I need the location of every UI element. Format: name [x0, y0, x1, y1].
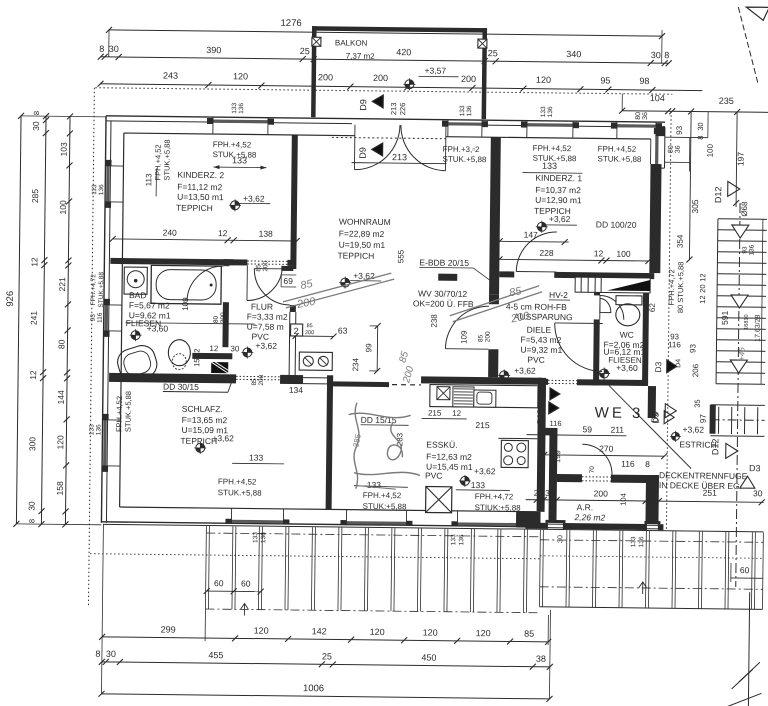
- svg-text:116: 116: [668, 340, 681, 349]
- svg-text:30: 30: [753, 488, 763, 498]
- svg-text:240: 240: [163, 227, 178, 237]
- svg-text:+3,60: +3,60: [147, 323, 169, 333]
- svg-text:PVC: PVC: [425, 470, 443, 480]
- outer wall top: inner face: [124, 133, 355, 136]
- svg-text:36: 36: [642, 112, 649, 120]
- svg-text:+3,62: +3,62: [353, 271, 375, 281]
- door ar corridor: [582, 444, 612, 474]
- svg-text:38: 38: [536, 654, 546, 664]
- svg-text:WC: WC: [620, 330, 634, 340]
- dim 99: [376, 326, 379, 371]
- svg-text:158: 158: [55, 481, 65, 496]
- balcony window-box symbol left: [312, 37, 321, 46]
- svg-text:DD 30/15: DD 30/15: [163, 382, 199, 392]
- svg-text:STUK:+5,88: STUK:+5,88: [363, 502, 407, 512]
- wall flur / wohnraum: [290, 266, 296, 269]
- outer wall left: faces: [101, 116, 106, 523]
- svg-text:234: 234: [351, 357, 360, 371]
- svg-text:199: 199: [553, 450, 562, 463]
- wall kinderz2 / wohnraum: [290, 135, 297, 260]
- svg-text:30: 30: [651, 50, 661, 60]
- svg-text:95: 95: [600, 75, 610, 85]
- svg-text:70: 70: [589, 466, 596, 474]
- svg-text:F=10,37 m2: F=10,37 m2: [535, 185, 581, 196]
- svg-text:241: 241: [29, 311, 39, 326]
- svg-text:200: 200: [485, 331, 492, 342]
- svg-text:STUK.+5,88: STUK.+5,88: [443, 155, 487, 165]
- svg-text:30: 30: [31, 121, 41, 131]
- chain left segments: [41, 116, 46, 524]
- wall kinderz1 bottom: [499, 271, 514, 277]
- pencil squiggle schlafz: [348, 403, 421, 490]
- bottom right border: [748, 592, 749, 706]
- svg-text:69: 69: [283, 276, 293, 286]
- svg-text:12: 12: [209, 344, 219, 353]
- dim ar bottom: [526, 500, 764, 503]
- svg-text:STUK.+5,88: STUK.+5,88: [218, 488, 262, 498]
- pencil strike flur: [283, 272, 391, 303]
- svg-text:D3: D3: [650, 411, 660, 423]
- benchmark +3,57: [405, 80, 414, 89]
- svg-text:136: 136: [260, 532, 267, 543]
- svg-text:D3: D3: [653, 361, 663, 372]
- svg-text:30: 30: [557, 535, 564, 543]
- svg-text:120: 120: [536, 75, 551, 85]
- svg-text:120: 120: [370, 627, 385, 637]
- svg-text:2: 2: [294, 326, 299, 336]
- svg-text:300: 300: [27, 437, 37, 452]
- svg-text:120: 120: [55, 435, 65, 450]
- svg-text:80: 80: [668, 145, 675, 153]
- svg-text:270: 270: [599, 443, 614, 453]
- svg-text:97: 97: [699, 414, 708, 424]
- svg-text:104: 104: [650, 93, 665, 103]
- dimension total 1276: [109, 30, 662, 36]
- staircase lower flight: [717, 407, 719, 434]
- svg-text:30: 30: [27, 501, 37, 511]
- svg-text:93: 93: [688, 343, 697, 353]
- nook sink unit: [299, 352, 332, 370]
- svg-text:85: 85: [478, 334, 485, 342]
- svg-text:60: 60: [214, 578, 224, 588]
- wall schlafz / esskue: [326, 375, 334, 509]
- wall esskue right: [537, 378, 547, 512]
- wall bad bottom niche: [192, 353, 232, 359]
- svg-text:30: 30: [545, 488, 555, 498]
- svg-text:30: 30: [696, 122, 705, 130]
- chain 1006: [101, 694, 549, 699]
- dim kinderz1 228/12/100: [499, 259, 648, 261]
- svg-text:17.63/28: 17.63/28: [755, 314, 762, 341]
- svg-text:TEPPICH: TEPPICH: [337, 250, 374, 260]
- svg-text:133: 133: [367, 480, 382, 490]
- svg-text:206: 206: [691, 363, 700, 377]
- dim 63: [296, 335, 334, 337]
- svg-text:109: 109: [181, 297, 190, 311]
- svg-text:STUK.+5,88: STUK.+5,88: [598, 154, 642, 164]
- svg-text:136: 136: [749, 244, 756, 255]
- bad washbasin counter: [124, 267, 147, 294]
- svg-text:KINDERZ. 2: KINDERZ. 2: [177, 170, 224, 181]
- svg-text:F=5,67 m2: F=5,67 m2: [129, 300, 170, 310]
- svg-text:200: 200: [262, 260, 269, 271]
- svg-text:12: 12: [594, 248, 604, 258]
- svg-text:104: 104: [619, 493, 628, 506]
- svg-text:228: 228: [539, 248, 554, 258]
- extension lines bottom: [101, 524, 103, 694]
- svg-text:12: 12: [698, 273, 707, 281]
- svg-text:E-BDB 20/15: E-BDB 20/15: [419, 257, 469, 268]
- svg-text:80: 80: [213, 315, 220, 323]
- svg-text:12: 12: [452, 409, 462, 418]
- svg-text:100: 100: [616, 249, 631, 259]
- svg-text:Ø68: Ø68: [740, 201, 749, 217]
- kitchen counter: [430, 385, 538, 408]
- svg-text:D4: D4: [675, 359, 682, 368]
- duct DD 30/15: [211, 362, 228, 373]
- svg-text:U=9,32 m1: U=9,32 m1: [520, 345, 562, 355]
- svg-text:136: 136: [98, 184, 105, 195]
- chain 299/120/142/120/120/120/85: [102, 637, 548, 642]
- stairs side rail: [761, 219, 763, 384]
- door wc: [600, 295, 624, 319]
- svg-text:63: 63: [338, 325, 348, 335]
- kitchen box symbol: [437, 387, 450, 400]
- svg-text:226: 226: [398, 103, 407, 116]
- wall stair hall: [648, 386, 656, 418]
- svg-text:98: 98: [639, 76, 649, 86]
- landing walls: [709, 405, 715, 434]
- svg-text:103: 103: [59, 142, 69, 157]
- dim kinderz2 bottom 240/12/138: [113, 239, 297, 241]
- svg-text:136: 136: [458, 534, 465, 545]
- balcony window-box symbol right: [478, 39, 487, 48]
- svg-text:85: 85: [255, 264, 262, 272]
- svg-text:4-5 cm ROH-FB: 4-5 cm ROH-FB: [506, 301, 567, 312]
- wall kinderz2 bottom: [110, 258, 247, 266]
- svg-text:F=3,33 m2: F=3,33 m2: [247, 311, 288, 321]
- svg-text:197: 197: [736, 152, 746, 167]
- svg-text:DIELE: DIELE: [527, 325, 552, 335]
- svg-text:+3,62: +3,62: [549, 214, 571, 224]
- dotted site line vertical left: [88, 88, 94, 607]
- svg-text:100: 100: [58, 200, 68, 215]
- kitchen drainer: [453, 387, 474, 407]
- svg-text:299: 299: [161, 624, 176, 634]
- outer wall top: outer face: [106, 116, 665, 122]
- door marker D12 entry: [550, 388, 560, 400]
- dimension row 243/120/200/200/200/120/95/98: [100, 84, 702, 91]
- wall schlafz top: [109, 373, 236, 383]
- corridor wall: [548, 435, 557, 522]
- svg-text:200: 200: [461, 74, 476, 84]
- svg-text:+3,62: +3,62: [255, 341, 277, 351]
- svg-text:12: 12: [698, 295, 707, 303]
- dim kinderz1 147: [500, 240, 569, 243]
- svg-text:147: 147: [524, 230, 539, 240]
- door D9 balcony double: [354, 125, 400, 171]
- svg-text:116: 116: [621, 459, 635, 469]
- svg-text:TEPPICH: TEPPICH: [176, 203, 213, 213]
- svg-text:FPH.+4,52: FPH.+4,52: [598, 144, 637, 153]
- svg-text:200: 200: [318, 72, 333, 82]
- svg-text:U=12,90 m1: U=12,90 m1: [535, 195, 582, 206]
- sheet corner mark top-right: [746, 7, 768, 20]
- svg-text:+45: +45: [737, 347, 746, 361]
- chain 197: [736, 112, 737, 207]
- svg-text:116: 116: [97, 312, 104, 323]
- svg-text:305: 305: [690, 199, 700, 214]
- wall wc bottom: [593, 379, 648, 386]
- wall wc left: [594, 292, 600, 295]
- svg-text:WV 30/70/12: WV 30/70/12: [418, 288, 468, 299]
- svg-text:25: 25: [322, 651, 332, 661]
- svg-text:FPH.+4,52: FPH.+4,52: [363, 491, 402, 500]
- svg-text:F=22,89 m2: F=22,89 m2: [339, 228, 385, 239]
- shaft wedge: [607, 280, 650, 291]
- svg-text:F=11,12 m2: F=11,12 m2: [177, 182, 222, 193]
- svg-text:STUK.+5,88: STUK.+5,88: [213, 150, 257, 160]
- svg-text:238: 238: [430, 314, 439, 328]
- svg-text:12: 12: [192, 348, 201, 356]
- svg-text:420: 420: [396, 47, 411, 57]
- svg-text:+3,62: +3,62: [212, 433, 234, 443]
- svg-text:+3,62: +3,62: [243, 193, 265, 203]
- svg-text:85: 85: [251, 378, 258, 386]
- svg-text:60: 60: [241, 578, 251, 588]
- shaft x-box bottom: [426, 486, 452, 512]
- svg-text:KINDERZ. 1: KINDERZ. 1: [535, 173, 582, 184]
- svg-text:93: 93: [675, 125, 684, 135]
- svg-text:200: 200: [258, 374, 265, 385]
- corner pier top right: [656, 126, 665, 136]
- svg-text:243: 243: [163, 70, 178, 80]
- svg-text:25: 25: [488, 48, 498, 58]
- svg-text:D9: D9: [358, 147, 368, 159]
- svg-text:354: 354: [676, 234, 685, 248]
- svg-text:SCHLAFZ.: SCHLAFZ.: [182, 404, 223, 414]
- terrace rows left: [206, 533, 540, 537]
- svg-text:2: 2: [534, 488, 539, 498]
- svg-text:62: 62: [648, 303, 657, 313]
- svg-text:390: 390: [206, 45, 221, 55]
- svg-text:8: 8: [645, 459, 650, 469]
- svg-text:2,26 m2: 2,26 m2: [573, 512, 605, 522]
- door kinderz1: [516, 232, 556, 272]
- svg-text:IN DECKE ÜBER EG.: IN DECKE ÜBER EG.: [659, 480, 742, 491]
- terrace right strip: [539, 530, 542, 607]
- svg-text:15: 15: [192, 358, 201, 366]
- staircase center dashdot: [736, 203, 740, 587]
- svg-text:30: 30: [109, 44, 119, 54]
- bad wc bowl: [168, 340, 190, 366]
- wall wohnraum / diele: [489, 137, 501, 294]
- svg-text:200: 200: [220, 312, 227, 323]
- svg-text:+3,60: +3,60: [616, 363, 638, 373]
- svg-text:STUK.+5,88: STUK.+5,88: [533, 154, 577, 164]
- svg-text:7,37 m2: 7,37 m2: [346, 52, 376, 61]
- svg-text:20: 20: [698, 284, 707, 292]
- svg-text:30: 30: [647, 489, 657, 499]
- svg-text:FPH.+4,52: FPH.+4,52: [213, 140, 252, 149]
- svg-text:A.R.: A.R.: [577, 502, 594, 512]
- wall bad/flur: [223, 265, 229, 266]
- balcony walls: [312, 26, 487, 32]
- svg-text:DD 100/20: DD 100/20: [596, 219, 637, 229]
- wall ar right thick: [645, 475, 659, 524]
- svg-text:12: 12: [218, 228, 228, 238]
- svg-text:FPH.+4,52: FPH.+4,52: [218, 477, 257, 486]
- svg-text:STIUK:+5,88: STIUK:+5,88: [475, 503, 522, 513]
- svg-text:200: 200: [594, 488, 609, 498]
- svg-text:100: 100: [706, 143, 715, 157]
- svg-text:136: 136: [466, 105, 473, 116]
- svg-text:8: 8: [99, 44, 104, 54]
- svg-text:F=13,65 m2: F=13,65 m2: [182, 415, 228, 426]
- svg-text:136: 136: [238, 103, 245, 114]
- svg-text:U=19,50 m1: U=19,50 m1: [339, 239, 386, 250]
- svg-text:8: 8: [27, 519, 36, 523]
- bottom wall windows: [231, 520, 283, 524]
- door flur-wohnraum: [254, 269, 290, 305]
- svg-text:D9: D9: [358, 99, 368, 111]
- door label 2: [291, 324, 303, 336]
- svg-text:ESSKÜ.: ESSKÜ.: [426, 439, 457, 449]
- chain total 926: [16, 116, 21, 524]
- svg-text:8: 8: [32, 111, 41, 115]
- terrace 60/60 box: [207, 590, 261, 593]
- svg-text:F=12,63 m2: F=12,63 m2: [426, 451, 472, 462]
- chain left inner: [65, 116, 70, 524]
- svg-text:235: 235: [719, 96, 734, 106]
- outer wall right kinderz1: [649, 164, 661, 273]
- svg-text:FPH.+4,52: FPH.+4,52: [533, 144, 572, 153]
- svg-text:450: 450: [421, 652, 436, 662]
- svg-text:109: 109: [459, 330, 468, 344]
- svg-text:93: 93: [742, 246, 749, 254]
- svg-text:HV-2: HV-2: [549, 290, 568, 300]
- svg-text:120: 120: [254, 626, 269, 636]
- dimension 104 / 235: [622, 111, 768, 113]
- hv shaft: [575, 277, 650, 293]
- svg-text:285: 285: [30, 189, 40, 204]
- svg-text:215: 215: [475, 420, 490, 430]
- svg-text:251: 251: [703, 488, 718, 498]
- svg-text:25: 25: [300, 46, 310, 56]
- svg-text:D12: D12: [713, 186, 723, 203]
- svg-text:113: 113: [144, 173, 153, 186]
- terrace axis arrows: [240, 603, 248, 615]
- svg-text:80 STUK.+5,88: 80 STUK.+5,88: [676, 262, 686, 314]
- svg-text:85: 85: [524, 629, 534, 639]
- outer wall bottom: faces: [101, 522, 525, 527]
- svg-text:WOHNRAUM: WOHNRAUM: [339, 216, 391, 227]
- dim 213 door: [352, 163, 447, 164]
- terrace verticals left block: [204, 526, 207, 609]
- svg-text:211: 211: [610, 425, 624, 435]
- svg-text:D3: D3: [749, 463, 761, 473]
- svg-text:136: 136: [547, 106, 554, 117]
- svg-text:+3,62: +3,62: [514, 365, 536, 375]
- svg-text:591: 591: [720, 310, 730, 325]
- svg-text:80: 80: [635, 112, 642, 120]
- wall wc right: [642, 293, 649, 386]
- svg-text:85: 85: [307, 323, 313, 329]
- svg-text:BAD: BAD: [129, 290, 147, 300]
- svg-text:FPH.+4,52: FPH.+4,52: [114, 396, 123, 432]
- outer wall top: leaf line: [106, 121, 352, 124]
- svg-text:+3,57: +3,57: [425, 65, 447, 75]
- svg-text:+3,62: +3,62: [474, 466, 496, 476]
- svg-text:120: 120: [233, 71, 248, 81]
- svg-text:U=13,50 m1: U=13,50 m1: [177, 192, 224, 203]
- svg-text:144: 144: [56, 390, 66, 405]
- wall nook thin: [288, 312, 291, 378]
- top wall windows: [213, 120, 268, 124]
- bathtub: [151, 265, 221, 304]
- svg-text:120: 120: [476, 628, 491, 638]
- wall esskue top: [333, 381, 389, 387]
- dotted site line horizontal: [95, 88, 672, 95]
- door bad arc: [187, 266, 223, 302]
- svg-text:FPH.+4,52: FPH.+4,52: [153, 144, 162, 180]
- svg-text:116: 116: [550, 419, 562, 428]
- wc toilet: [616, 296, 642, 305]
- svg-text:133: 133: [450, 534, 457, 545]
- svg-text:FPH.+3,▫2: FPH.+3,▫2: [443, 145, 481, 154]
- svg-text:59: 59: [582, 424, 592, 434]
- svg-text:133: 133: [630, 536, 637, 547]
- svg-text:99: 99: [364, 343, 373, 353]
- svg-text:FPH.+4,72: FPH.+4,72: [667, 269, 676, 305]
- svg-text:D12: D12: [710, 438, 720, 455]
- svg-text:200: 200: [305, 330, 314, 336]
- svg-text:+3,62: +3,62: [682, 424, 704, 434]
- wall ar top: [557, 474, 582, 482]
- svg-text:926: 926: [5, 291, 16, 307]
- svg-text:8: 8: [95, 649, 100, 659]
- svg-text:37: 37: [549, 433, 558, 441]
- wc basin: [600, 298, 611, 312]
- staircase treads: [718, 218, 767, 221]
- svg-text:BALKON: BALKON: [335, 38, 368, 47]
- svg-text:STUK.+5,88: STUK.+5,88: [162, 139, 171, 180]
- svg-text:213: 213: [389, 103, 398, 116]
- svg-text:80: 80: [56, 339, 66, 349]
- svg-text:138: 138: [259, 229, 274, 239]
- svg-text:FLUR: FLUR: [251, 301, 273, 311]
- kitchen sink: [474, 390, 496, 407]
- dotted site line vertical right: [666, 111, 671, 530]
- svg-text:FPH.+4,72: FPH.+4,72: [475, 492, 514, 501]
- svg-text:215: 215: [428, 409, 442, 418]
- svg-text:16810: 16810: [744, 314, 750, 329]
- svg-text:F=5,43 m2: F=5,43 m2: [520, 335, 561, 345]
- pencil strike diele: [450, 285, 539, 317]
- svg-text:OK=200 Ü. FFB: OK=200 Ü. FFB: [413, 298, 474, 309]
- svg-text:213: 213: [392, 152, 407, 162]
- svg-text:STUK.+5,88: STUK.+5,88: [98, 272, 105, 308]
- stove: [501, 440, 528, 467]
- svg-text:133: 133: [252, 532, 259, 543]
- svg-text:30: 30: [230, 344, 240, 353]
- terrace slab: [103, 524, 763, 531]
- svg-text:455: 455: [208, 650, 223, 660]
- svg-text:36: 36: [675, 145, 682, 153]
- dimension row 8/30/390/25/420/25/340/30/8: [101, 57, 669, 63]
- jamb 69: [281, 266, 293, 271]
- wall diele bottom / we3: [542, 379, 548, 385]
